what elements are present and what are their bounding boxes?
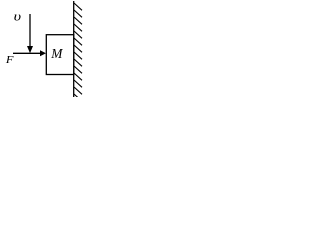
wall hatching bbox=[74, 3, 82, 101]
wall bbox=[73, 1, 75, 97]
svg-text:F: F bbox=[5, 53, 15, 65]
force arrow F bbox=[13, 50, 46, 56]
velocity arrow v bbox=[27, 14, 33, 53]
svg-text:υ: υ bbox=[14, 10, 22, 24]
block M bbox=[46, 35, 73, 75]
svg-text:M: M bbox=[50, 46, 63, 61]
